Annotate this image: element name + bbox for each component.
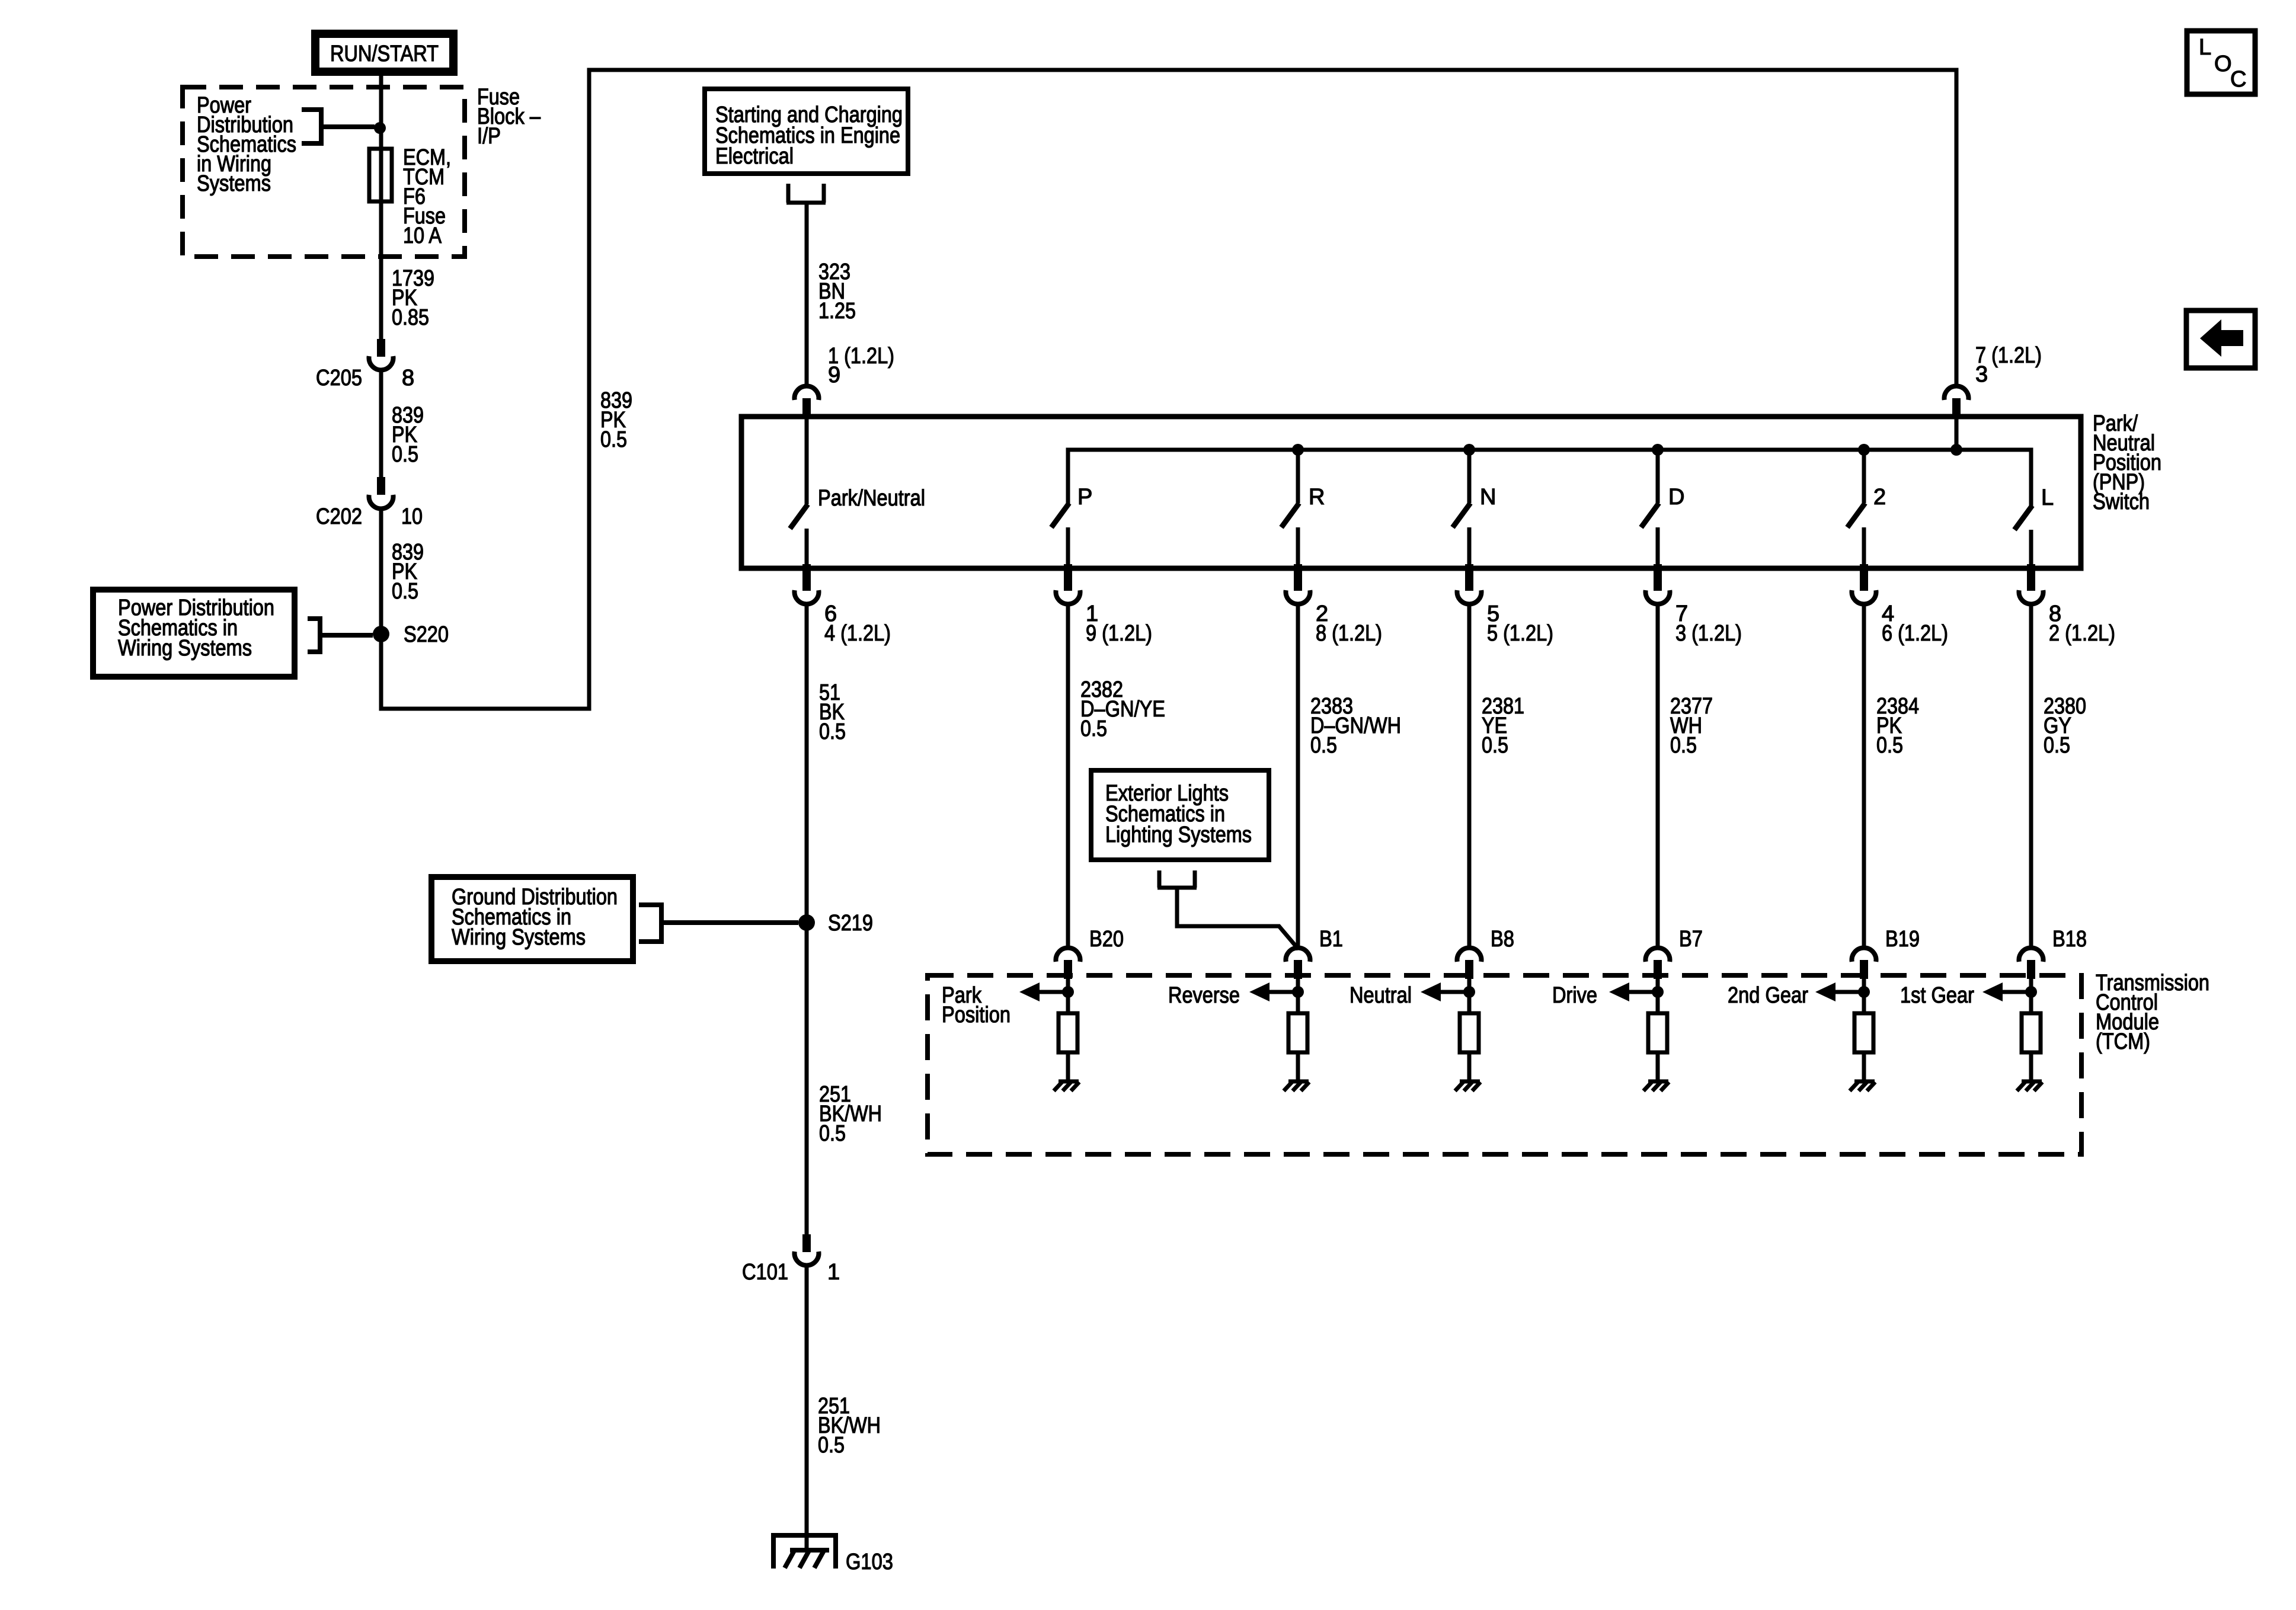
switch label R (1309, 485, 1325, 510)
connector at PNP Park/Neutral input (795, 386, 819, 419)
wire resistor to ground at B7 (1656, 1052, 1660, 1081)
signal label Reverse (1168, 983, 1240, 1008)
switch label 2 (1873, 485, 1886, 510)
bus junction dot at switch R (1292, 444, 1304, 456)
svg-text:Electrical: Electrical (715, 144, 794, 169)
wire 323 BN 1.25 (805, 203, 809, 385)
pin number 5 (1487, 601, 1499, 626)
pin label 9 (1.2L) (1086, 621, 1152, 646)
switch N contact (1453, 450, 1470, 566)
svg-text:G103: G103 (846, 1550, 893, 1574)
wire label 51 BK 0.5 (819, 680, 846, 744)
back arrow box (2186, 311, 2255, 368)
pin label 2 (1.2L) (2049, 621, 2115, 646)
connector pin 2 at PNP output x=2190 (1286, 564, 1310, 604)
svg-text:2nd Gear: 2nd Gear (1728, 983, 1808, 1008)
wire label 2380 GY 0.5 (2044, 694, 2086, 758)
pin number 2 (1316, 601, 1328, 626)
pin label 6 (1.2L) (1882, 621, 1948, 646)
svg-text:C101: C101 (742, 1260, 788, 1285)
ground symbol at B19 (1850, 1081, 1875, 1091)
svg-text:3 (1.2L): 3 (1.2L) (1675, 621, 1742, 646)
label Fuse Block - I/P (477, 85, 541, 149)
resistor at B8 (1460, 1013, 1479, 1052)
switch label Park/Neutral (818, 486, 925, 511)
svg-text:Neutral: Neutral (1350, 983, 1412, 1008)
wire pin 3 to internal bus (1955, 419, 1959, 450)
wire label 839 PK 0.5 (392, 540, 424, 604)
wire label 251 BK/WH 0.5 (818, 1394, 881, 1458)
pin label 8 (1.2L) (1316, 621, 1382, 646)
signal label Drive (1552, 983, 1597, 1008)
wire inside TCM at B20 (1066, 979, 1070, 1013)
switch label N (1480, 485, 1496, 510)
ground symbol at B7 (1643, 1081, 1669, 1091)
wire segment S220 down to corner (379, 634, 383, 709)
pin number 1 (C101) (827, 1260, 840, 1285)
label Transmission Control Module (TCM) (2096, 971, 2209, 1054)
connector pin 1 at PNP output x=1802 (1056, 564, 1080, 604)
wire resistor to ground at B8 (1467, 1052, 1472, 1081)
svg-text:B18: B18 (2052, 927, 2087, 952)
internal bus wire (1068, 450, 2031, 507)
svg-text:10: 10 (401, 504, 423, 529)
pin number 3 (PNP) (1975, 362, 1988, 387)
PNP switch box outline (741, 417, 2081, 568)
connector label C202 (316, 504, 362, 529)
switch L contact (2014, 450, 2032, 566)
pin number 1 (1086, 601, 1098, 626)
connector label C101 (742, 1260, 788, 1285)
wire 839 PK 0.5 (C205 to C202) (379, 370, 383, 477)
svg-text:0.5: 0.5 (1080, 716, 1107, 741)
switch P contact (1051, 450, 1069, 566)
switch label D (1668, 485, 1684, 510)
wire 2380 GY 0.5 (2029, 606, 2033, 946)
reference box Ground Distribution Schematics in Wiring Systems (431, 877, 633, 961)
wire 51 BK 0.5 (Park/Neutral to S219) (805, 606, 809, 923)
pin number 6 (824, 601, 837, 626)
signal label 2nd Gear (1728, 983, 1808, 1008)
junction dot B18 (2025, 986, 2037, 998)
ground symbol at B18 (2017, 1081, 2042, 1091)
svg-text:O: O (2214, 52, 2232, 76)
svg-text:S220: S220 (404, 622, 449, 647)
svg-text:10 A: 10 A (403, 223, 442, 248)
svg-text:0.5: 0.5 (1670, 733, 1697, 758)
svg-text:1.25: 1.25 (818, 299, 856, 324)
signal label Park Position (942, 983, 1011, 1028)
wire 2377 WH 0.5 (1656, 606, 1660, 946)
connector pin 8 at PNP output x=3427 (2019, 564, 2044, 604)
label Park/Neutral Position (PNP) Switch (2093, 411, 2161, 514)
connector label B19 (1885, 927, 1920, 952)
wire 839 PK 0.5 (C202 to S220) (379, 509, 383, 634)
switch R contact (1281, 450, 1299, 566)
svg-text:1: 1 (827, 1260, 840, 1285)
wire label 2383 D–GN/WH 0.5 (1310, 694, 1401, 758)
svg-text:B8: B8 (1491, 927, 1514, 952)
connector pin 4 at PNP output x=3145 (1851, 564, 1876, 604)
bracket from reference box to splice S220 (308, 616, 373, 654)
svg-text:B1: B1 (1319, 927, 1343, 952)
note Power Distribution Schematics in Wiring Systems (fuse block) (197, 93, 296, 196)
resistor at B20 (1059, 1013, 1077, 1052)
bus junction dot at switch N (1463, 444, 1475, 456)
svg-text:L: L (2041, 485, 2054, 510)
TCM dashed box Transmission Control Module (928, 975, 2081, 1154)
signal arrow 1st Gear (1982, 982, 2031, 1001)
svg-text:Park/Neutral: Park/Neutral (818, 486, 925, 511)
svg-text:1st Gear: 1st Gear (1900, 983, 1974, 1008)
svg-text:6 (1.2L): 6 (1.2L) (1882, 621, 1948, 646)
wire 251 BK/WH 0.5 (S219 to C101) (805, 923, 809, 1234)
connector label B1 (1319, 927, 1343, 952)
svg-text:0.5: 0.5 (1310, 733, 1337, 758)
wire resistor to ground at B20 (1066, 1052, 1070, 1081)
pin number 4 (1882, 601, 1894, 626)
svg-text:P: P (1077, 485, 1092, 510)
svg-text:3: 3 (1975, 362, 1988, 387)
switch Park/Neutral contact (790, 419, 808, 566)
wire from RUN/START to fuse F6 (379, 76, 383, 149)
svg-text:Wiring Systems: Wiring Systems (452, 925, 586, 950)
wire segment 839 PK riser (587, 70, 591, 711)
junction dot B1 (1292, 986, 1304, 998)
pin number 8 (C205) (402, 366, 414, 391)
junction dot B19 (1858, 986, 1870, 998)
svg-text:N: N (1480, 485, 1496, 510)
wire 2381 YE 0.5 (1467, 606, 1472, 946)
wire resistor to ground at B18 (2029, 1052, 2033, 1081)
svg-text:8: 8 (402, 366, 414, 391)
svg-text:0.5: 0.5 (392, 442, 418, 467)
switch label L (2041, 485, 2054, 510)
svg-text:0.5: 0.5 (1482, 733, 1508, 758)
wire 2383 D–GN/WH 0.5 (1296, 606, 1300, 946)
svg-text:Systems: Systems (197, 171, 271, 196)
pin label 7 (1.2L) at PNP pin 3 (1975, 343, 2042, 368)
reference box Exterior Lights Schematics in Lighting Systems (1091, 770, 1269, 860)
signal arrow Drive (1609, 982, 1658, 1001)
wire 251 BK/WH 0.5 (C101 to G103) (805, 1266, 809, 1550)
ground G103 (771, 1535, 838, 1569)
wire 2384 PK 0.5 (1862, 606, 1866, 946)
svg-text:R: R (1309, 485, 1325, 510)
fuse F6 value label (403, 145, 451, 248)
wire resistor to ground at B19 (1862, 1052, 1866, 1081)
wire segment bottom horizontal to riser (379, 707, 590, 711)
signal label 1st Gear (1900, 983, 1974, 1008)
wire segment drop to PNP switch pin 3 (1955, 68, 1959, 385)
pin number 9 (PNP) (828, 363, 840, 388)
svg-text:0.5: 0.5 (819, 1121, 846, 1146)
svg-text:4 (1.2L): 4 (1.2L) (824, 621, 891, 646)
connector pin 7 at PNP output x=2797 (1646, 564, 1670, 604)
wire resistor to ground at B1 (1296, 1052, 1300, 1081)
connector TCM B20 (1056, 948, 1080, 979)
connector label C205 (316, 366, 362, 391)
resistor at B19 (1854, 1013, 1873, 1052)
connector TCM B1 (1286, 948, 1310, 979)
svg-text:9: 9 (828, 363, 840, 388)
connector pin 5 at PNP output x=2479 (1457, 564, 1481, 604)
connector label B7 (1679, 927, 1703, 952)
wire label 2377 WH 0.5 (1670, 694, 1713, 758)
wire 2382 D–GN/YE 0.5 (1066, 606, 1070, 946)
junction dot above fuse F6 (374, 122, 386, 134)
resistor at B7 (1648, 1013, 1667, 1052)
svg-text:0.5: 0.5 (1876, 733, 1903, 758)
switch D contact (1641, 450, 1659, 566)
wire inside TCM at B7 (1656, 979, 1660, 1013)
switch 2 contact (1847, 450, 1865, 566)
svg-text:C: C (2230, 67, 2246, 92)
bracket from ground box to splice S219 (639, 902, 798, 944)
ground symbol at B1 (1284, 1081, 1309, 1091)
svg-text:Position: Position (942, 1003, 1011, 1028)
svg-text:B20: B20 (1089, 927, 1124, 952)
connector TCM B8 (1457, 948, 1482, 979)
junction dot B20 (1062, 986, 1074, 998)
wire label 839 PK 0.5 (392, 403, 424, 467)
power feed tag RUN/START (315, 34, 453, 72)
svg-text:Reverse: Reverse (1168, 983, 1240, 1008)
fuse F6 ECM/TCM 10A (369, 149, 392, 201)
svg-text:Switch: Switch (2093, 489, 2150, 514)
junction dot pin 3 on bus (1950, 444, 1962, 456)
bracket below Starting and Charging box (786, 184, 826, 203)
connector label B18 (2052, 927, 2087, 952)
svg-text:0.5: 0.5 (600, 427, 627, 452)
svg-text:L: L (2199, 35, 2211, 60)
pin label 5 (1.2L) (1487, 621, 1553, 646)
bus junction dot at switch D (1652, 444, 1664, 456)
svg-text:C205: C205 (316, 366, 362, 391)
pin number 7 (1675, 601, 1688, 626)
switch label P (1077, 485, 1092, 510)
svg-text:Wiring Systems: Wiring Systems (118, 636, 252, 661)
wire inside TCM at B1 (1296, 979, 1300, 1013)
connector C101 terminal 1 (795, 1234, 819, 1265)
svg-text:0.85: 0.85 (392, 305, 429, 330)
svg-text:Drive: Drive (1552, 983, 1597, 1008)
connector TCM B18 (2019, 948, 2044, 979)
wire label 2382 D–GN/YE 0.5 (1080, 677, 1165, 741)
splice S219 (798, 914, 815, 931)
wire 1739 PK 0.85 (379, 201, 383, 339)
wire inside TCM at B8 (1467, 979, 1472, 1013)
wire inside TCM at B18 (2029, 979, 2033, 1013)
svg-text:0.5: 0.5 (818, 1433, 845, 1458)
svg-text:(TCM): (TCM) (2096, 1029, 2150, 1054)
svg-text:Lighting Systems: Lighting Systems (1105, 822, 1252, 847)
connector pin 6 at PNP output x=1361 (795, 564, 819, 604)
svg-text:0.5: 0.5 (2044, 733, 2070, 758)
reference box Power Distribution Schematics in Wiring Systems (93, 590, 295, 677)
bracket below Exterior Lights box (1157, 870, 1197, 888)
splice S220 (373, 626, 389, 642)
svg-text:0.5: 0.5 (392, 579, 418, 604)
reference box Starting and Charging Schematics in Engine Electrical (705, 89, 908, 174)
ground symbol at B8 (1455, 1081, 1480, 1091)
svg-text:5 (1.2L): 5 (1.2L) (1487, 621, 1553, 646)
svg-text:RUN/START: RUN/START (330, 41, 439, 66)
svg-text:0.5: 0.5 (819, 719, 846, 744)
connector C205 terminal 8 (369, 339, 394, 370)
pin number 8 (2049, 601, 2061, 626)
resistor at B1 (1288, 1013, 1307, 1052)
splice label S220 (404, 622, 449, 647)
svg-text:8 (1.2L): 8 (1.2L) (1316, 621, 1382, 646)
svg-text:C202: C202 (316, 504, 362, 529)
wire inside TCM at B19 (1862, 979, 1866, 1013)
ground symbol at B20 (1054, 1081, 1079, 1091)
connector at PNP switch pin 3 (1945, 386, 1969, 419)
svg-text:9 (1.2L): 9 (1.2L) (1086, 621, 1152, 646)
svg-text:2: 2 (1873, 485, 1886, 510)
splice label S219 (828, 911, 873, 936)
fuse block dashed box Fuse Block - I/P (183, 87, 465, 257)
wire label 251 BK/WH 0.5 (819, 1082, 882, 1146)
junction dot B7 (1652, 986, 1664, 998)
connector C202 terminal 10 (369, 477, 394, 508)
svg-text:I/P: I/P (477, 124, 501, 149)
wire label 2384 PK 0.5 (1876, 694, 1919, 758)
pin number 10 (C202) (401, 504, 423, 529)
resistor at B18 (2022, 1013, 2041, 1052)
signal arrow Park Position (1019, 982, 1068, 1001)
svg-text:B19: B19 (1885, 927, 1920, 952)
ground label G103 (846, 1550, 893, 1574)
junction dot B8 (1463, 986, 1475, 998)
pin label 4 (1.2L) (824, 621, 891, 646)
bracket from note to node above fuse (302, 107, 375, 146)
pin label 3 (1.2L) (1675, 621, 1742, 646)
connector label B20 (1089, 927, 1124, 952)
signal arrow Neutral (1421, 982, 1469, 1001)
wire segment top horizontal 839 PK (587, 68, 1957, 72)
svg-text:S219: S219 (828, 911, 873, 936)
wire from Exterior Lights bracket to B1 wire (1177, 888, 1299, 949)
wire label 839 PK 0.5 (riser) (600, 388, 632, 452)
wire label 2381 YE 0.5 (1482, 694, 1524, 758)
pin label 1 (1.2L) at PNP Park/Neutral input (828, 344, 894, 369)
LOC reference box (2187, 31, 2255, 94)
connector TCM B7 (1646, 948, 1670, 979)
wire label 1739 PK 0.85 (392, 266, 434, 330)
wire label 323 BN 1.25 (818, 260, 856, 324)
signal label Neutral (1350, 983, 1412, 1008)
connector TCM B19 (1851, 948, 1876, 979)
signal arrow 2nd Gear (1815, 982, 1864, 1001)
connector label B8 (1491, 927, 1514, 952)
svg-text:B7: B7 (1679, 927, 1703, 952)
svg-text:D: D (1668, 485, 1684, 510)
svg-text:2 (1.2L): 2 (1.2L) (2049, 621, 2115, 646)
bus junction dot at switch 2 (1858, 444, 1870, 456)
signal arrow Reverse (1249, 982, 1298, 1001)
